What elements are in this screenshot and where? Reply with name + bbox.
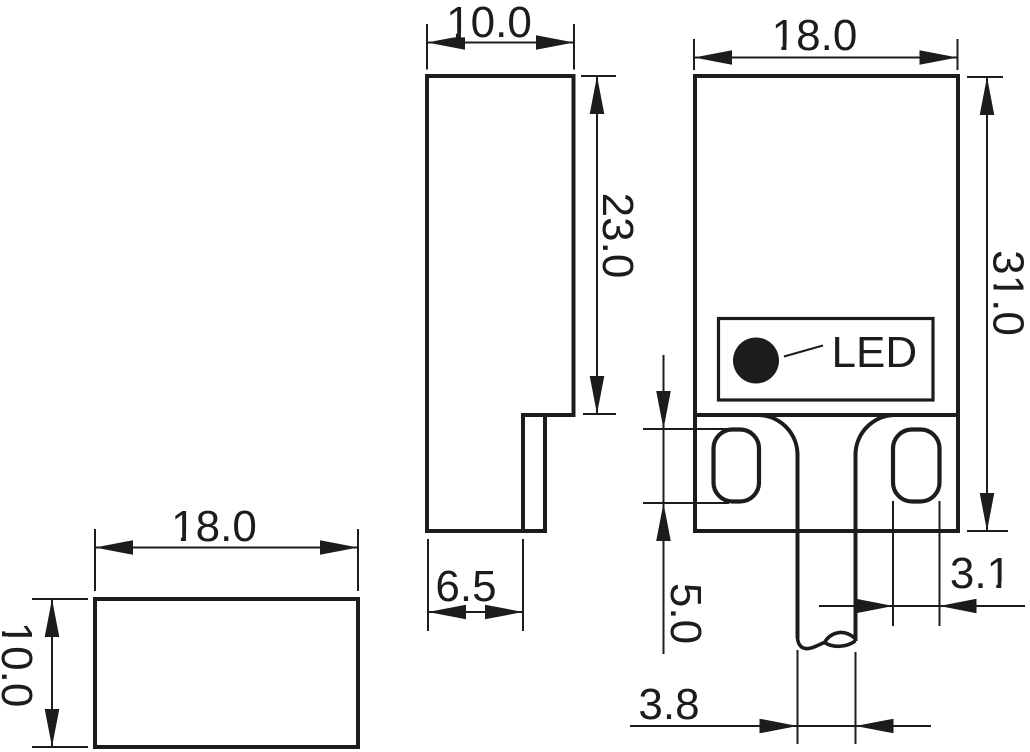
cable break wave (798, 637, 825, 649)
dim 3.8 dimension line (front view) (630, 725, 931, 727)
dim 3.1 arrowhead pointing left (front view) (940, 599, 977, 614)
dim 10.0 arrowhead down (top view) (45, 709, 60, 747)
side view left edge (425, 74, 429, 533)
dim 3.8 arrowhead pointing left (front view) (856, 719, 894, 734)
side view flange rear edge (521, 415, 525, 531)
dim 6.5 extension line right (side view) (522, 539, 524, 631)
dim 3.8 arrowhead pointing right (front view) (760, 719, 798, 734)
dim 3.1 arrowhead pointing right (front view) (856, 599, 893, 614)
dim 6.5 arrowhead right (side view) (485, 605, 523, 620)
svg-text:6.5: 6.5 (435, 562, 496, 611)
dim 23.0 extension tick top (side view) (581, 75, 616, 77)
dim 18.0 extension line right (top view) (357, 529, 359, 591)
cable tube left fillet (758, 415, 798, 455)
dim 10.0 extension tick top (top view) (32, 598, 88, 600)
front view body outline (695, 76, 958, 531)
dim 5.0 extension line bottom (front view slot) (643, 502, 729, 504)
cable break lens lower arc (825, 641, 856, 646)
dim 31.0 extension tick top (front view) (967, 76, 1003, 78)
dim 18.0 arrowhead left (top view) (95, 540, 133, 555)
side view top edge (425, 74, 576, 78)
LED indicator dot (733, 338, 779, 384)
dim 5.0 arrowhead up (front view) (656, 503, 671, 541)
dim 10.0 extension line left (side view) (426, 24, 428, 70)
dim 10.0 arrowhead right (side view) (536, 35, 574, 50)
dim 18.0 extension line right (front view) (957, 39, 959, 70)
dim 10.0 dimension line (side view) (427, 42, 574, 44)
dim 23.0 arrowhead down (side view) (590, 376, 605, 414)
dim 10.0 extension line right (side view) (573, 24, 575, 70)
side view cable boss edge (543, 415, 547, 531)
dim 31.0 extension tick bottom (front view) (967, 530, 1008, 532)
svg-text:LED: LED (832, 328, 918, 377)
dim 23.0 extension tick bottom (side view) (583, 413, 616, 415)
dim 5.0 arrowhead down (front view) (656, 391, 671, 429)
side view right edge (572, 76, 576, 417)
svg-text:23.0: 23.0 (593, 193, 642, 279)
dim 6.5 arrowhead left (side view) (428, 605, 466, 620)
dim 18.0 dimension line (front view) (694, 57, 958, 59)
dim 10.0 arrowhead left (side view) (427, 35, 465, 50)
dim 18.0 arrowhead right (top view) (320, 540, 358, 555)
svg-text:18.0: 18.0 (171, 502, 257, 551)
cable tube left line (796, 453, 800, 638)
side view step horizontal edge (521, 413, 576, 417)
dim 3.1 extension line right (front view slot width) (939, 501, 941, 626)
dim 3.8 extension line left (cable width) (797, 650, 799, 744)
dim 31.0 arrowhead down (front view) (980, 493, 995, 531)
dim 6.5 extension line left (side view) (427, 539, 429, 631)
dim 18.0 arrowhead left (front view) (694, 50, 732, 65)
svg-text:31.0: 31.0 (984, 250, 1030, 336)
right mounting slot (893, 430, 940, 502)
svg-text:10.0: 10.0 (446, 0, 532, 47)
LED leader line (784, 346, 823, 357)
svg-text:18.0: 18.0 (772, 11, 858, 60)
dim 5.0 extension line top (front view slot) (643, 428, 729, 430)
svg-text:3.1: 3.1 (950, 549, 1011, 598)
svg-text:10.0: 10.0 (0, 622, 41, 708)
white masks removing the foot serif of each "1" glyph (target font has serif-less 1) (2, 31, 1010, 645)
dim 10.0 arrowhead up (top view) (45, 599, 60, 637)
dim 5.0 dimension line (front view) (663, 355, 665, 654)
dim 18.0 extension line left (front view) (693, 39, 695, 70)
left mounting slot (714, 430, 760, 502)
dim 23.0 dimension line (side view) (596, 76, 598, 414)
cable tube right fillet (856, 415, 896, 455)
cable tube right line (854, 453, 858, 641)
dim 31.0 dimension line (front view) (986, 77, 988, 531)
dim 3.1 extension line left (front view slot width) (892, 501, 894, 626)
dim 3.1 dimension line (front view) (819, 605, 1025, 607)
dim 10.0 dimension line (top view) (51, 599, 53, 747)
dim 10.0 extension tick bottom (top view) (32, 746, 88, 748)
cable break lens upper arc (825, 632, 856, 642)
dim 23.0 arrowhead up (side view) (590, 76, 605, 114)
side view bottom edge (425, 529, 547, 533)
dim 31.0 arrowhead up (front view) (980, 77, 995, 115)
front view head/flange divider line (695, 413, 958, 417)
dim 6.5 dimension line (side view) (428, 611, 523, 613)
dim 18.0 extension line left (top view) (94, 529, 96, 591)
dim 18.0 dimension line (top view) (95, 547, 358, 549)
svg-text:5.0: 5.0 (661, 583, 710, 644)
dim 18.0 arrowhead right (front view) (920, 50, 958, 65)
dim 3.8 extension line right (cable width) (855, 652, 857, 744)
top view body outline (95, 599, 358, 747)
svg-text:3.8: 3.8 (638, 680, 699, 729)
LED window box (719, 319, 934, 401)
flange bottom edge (695, 529, 958, 533)
